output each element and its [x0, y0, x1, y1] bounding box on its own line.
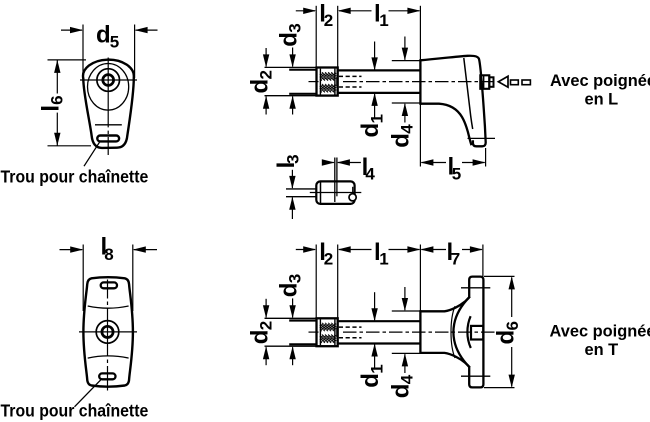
d3 arrows + label: [292, 48, 294, 115]
d3: [292, 298, 294, 365]
d1 arrows + label: [374, 42, 376, 118]
svg-text:1: 1: [379, 250, 388, 269]
svg-text:1: 1: [379, 11, 388, 30]
svg-text:3: 3: [286, 274, 305, 283]
leader line: [75, 380, 101, 407]
vertical centerline: [107, 280, 109, 391]
top chord arc: [88, 306, 129, 308]
inner ellipse: [88, 64, 129, 111]
bone outline: [83, 277, 132, 387]
svg-text:3: 3: [286, 23, 305, 32]
nose tip lines (l3 feature): [286, 188, 316, 190]
d3 outer lines: [265, 317, 317, 319]
svg-text:d: d: [387, 133, 414, 148]
dimensions: l2 l1: [296, 6, 421, 167]
d3 outer lines (thread extension): [265, 66, 317, 68]
center tick left of box: [309, 81, 319, 83]
springs: [320, 72, 335, 92]
svg-text:2: 2: [324, 250, 333, 269]
svg-text:en T: en T: [585, 341, 619, 359]
svg-text:2: 2: [324, 11, 333, 30]
d2: [265, 299, 267, 365]
l5 dimension: [421, 148, 485, 167]
d1: [374, 292, 376, 368]
svg-text:Avec poignée: Avec poignée: [550, 323, 650, 341]
bottom slot: [99, 373, 115, 379]
cross tick in box right: [336, 77, 338, 87]
svg-text:d: d: [357, 373, 384, 388]
crossing line on leg: [468, 137, 496, 139]
l8 dimension: [60, 245, 158, 312]
spring box: [317, 68, 338, 96]
svg-text:d: d: [357, 123, 384, 138]
chain slot: [97, 136, 119, 142]
svg-text:Trou pour chaînette: Trou pour chaînette: [1, 167, 149, 187]
small bold ring (hole): [103, 75, 114, 86]
leader line: [84, 142, 100, 166]
hub mouth arc: [453, 297, 469, 368]
svg-text:6: 6: [48, 95, 67, 104]
main shaft: [338, 320, 421, 322]
svg-text:d: d: [96, 22, 111, 49]
svg-text:d: d: [275, 32, 302, 47]
svg-text:Avec poignée: Avec poignée: [550, 72, 650, 90]
ball center tick: [352, 187, 354, 198]
svg-text:7: 7: [451, 250, 460, 269]
chord lines on bar: [461, 287, 490, 289]
horizontal centerline: [79, 331, 137, 333]
svg-text:6: 6: [503, 321, 522, 330]
svg-text:d: d: [246, 330, 273, 345]
centerline: [343, 81, 498, 83]
vertical centerline: [107, 58, 109, 156]
small bold ring: [102, 326, 113, 337]
pin nose outline d2: [289, 69, 316, 71]
button: [480, 75, 489, 89]
horizontal centerline: [80, 79, 137, 81]
d5 dimension: [61, 25, 158, 80]
T-handle bar: [469, 277, 483, 388]
d6: [484, 276, 515, 387]
svg-text:3: 3: [284, 154, 303, 163]
pin nose: [289, 319, 316, 321]
bottom chord arc: [88, 356, 129, 358]
hub head: [420, 297, 469, 312]
middle circle: [97, 69, 120, 92]
L-handle outline: [420, 56, 485, 147]
detail centerline: [310, 192, 362, 194]
svg-text:2: 2: [257, 70, 276, 79]
label: Trou pour chainette (top): [1, 167, 149, 187]
chord line: [95, 124, 122, 126]
d4 arrows + label: [392, 37, 421, 123]
svg-text:l: l: [37, 105, 64, 112]
svg-text:1: 1: [367, 364, 386, 373]
svg-text:Trou pour chaînette: Trou pour chaînette: [1, 401, 149, 421]
l3 arrows: [291, 170, 293, 188]
svg-text:d: d: [275, 283, 302, 298]
boss arc left of pin end: [467, 316, 470, 348]
sleeve outline: [316, 181, 354, 204]
dims l2 l1 l7: [296, 245, 483, 318]
top slot: [101, 282, 117, 288]
locking ball: [349, 194, 356, 201]
svg-text:d: d: [387, 384, 414, 399]
svg-text:en L: en L: [585, 90, 619, 108]
svg-text:8: 8: [104, 245, 113, 264]
l4 lines: [322, 162, 334, 164]
inner slant line: [464, 58, 473, 129]
pin end rect: [471, 326, 483, 340]
middle circle: [96, 321, 119, 344]
svg-text:4: 4: [398, 124, 417, 134]
l6 dimension: [48, 60, 92, 146]
svg-text:5: 5: [110, 33, 119, 52]
svg-text:2: 2: [257, 321, 276, 330]
label: Trou pour chainette (bottom): [1, 401, 149, 421]
main shaft d1: [338, 69, 421, 71]
svg-text:1: 1: [367, 114, 386, 123]
flange outline: [83, 60, 134, 148]
hidden lines: [339, 75, 362, 77]
thin tangency arc: [451, 306, 455, 358]
svg-text:4: 4: [398, 374, 417, 384]
l4 extension pair: [334, 158, 336, 203]
d2 arrows + label: [265, 48, 267, 115]
d4: [392, 287, 421, 373]
svg-text:5: 5: [452, 164, 461, 183]
sleeve inner wall: [320, 182, 322, 203]
spring box: [317, 318, 338, 346]
press symbol: [498, 76, 508, 87]
svg-text:d: d: [493, 330, 520, 345]
svg-text:d: d: [246, 79, 273, 94]
svg-text:4: 4: [365, 165, 375, 184]
